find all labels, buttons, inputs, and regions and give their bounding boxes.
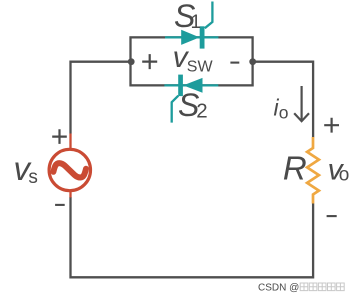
svg-text:o: o — [279, 102, 289, 122]
svg-text:R: R — [283, 150, 307, 187]
svg-text:CSDN @: CSDN @ — [258, 282, 299, 293]
svg-text:1: 1 — [191, 12, 202, 33]
svg-text:SW: SW — [187, 59, 214, 76]
svg-text:s: s — [28, 167, 38, 188]
svg-text:o: o — [339, 165, 349, 186]
svg-text:2: 2 — [196, 99, 207, 122]
